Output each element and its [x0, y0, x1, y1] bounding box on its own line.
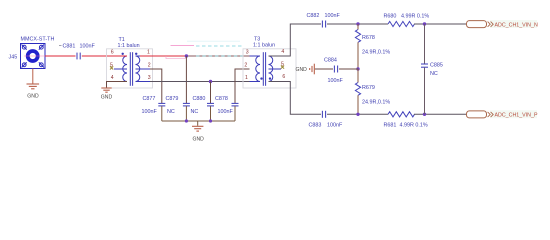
svg-text:GND: GND — [296, 67, 308, 73]
capacitor C878 — [232, 103, 239, 106]
port ADC_CH1_VIN_N — [490, 20, 537, 28]
capacitor C877 — [158, 103, 165, 106]
ground under J45 — [27, 84, 40, 89]
svg-text:NC: NC — [167, 109, 175, 115]
T1 pin 2 — [136, 68, 151, 70]
T3 pin 1 line — [250, 81, 261, 83]
wire bus to GND — [197, 121, 199, 126]
svg-text:6: 6 — [282, 74, 285, 80]
T3 phase dots — [260, 77, 262, 79]
svg-text:NC: NC — [191, 109, 199, 115]
T1 core — [129, 52, 131, 86]
capacitor C881 — [77, 53, 80, 60]
junction on row3 at C880 — [209, 80, 212, 83]
wire T1 pin2 to C877 — [150, 69, 162, 103]
resistor R678 (vertical) — [357, 24, 359, 30]
capacitor C882 — [322, 21, 325, 28]
cap bottom stubs — [162, 106, 235, 121]
wire J45 to C881 (red RF net) — [45, 55, 76, 57]
svg-text:4: 4 — [281, 49, 284, 55]
wire T1 pin3 to T3 pin1 — [150, 81, 250, 83]
wire T3 pin4 up to top row — [269, 24, 322, 56]
wire C882 to junction to R680 — [327, 23, 388, 25]
svg-text:C884: C884 — [324, 57, 337, 63]
T1 right winding — [136, 56, 140, 82]
wire T3 pin6 down to bottom row — [269, 82, 322, 115]
svg-text:MMCX-ST-TH: MMCX-ST-TH — [21, 37, 55, 43]
T1 pin numbers — [110, 50, 151, 82]
svg-text:GND: GND — [27, 94, 39, 100]
svg-text:C881: C881 — [63, 43, 76, 49]
svg-text:C880: C880 — [193, 96, 206, 102]
capacitor C884 — [334, 66, 337, 73]
svg-text:C882: C882 — [307, 13, 320, 19]
T1 pin 1 line — [136, 55, 141, 57]
svg-text:4.99R 0.1%: 4.99R 0.1% — [401, 13, 429, 19]
svg-text:C879: C879 — [166, 96, 179, 102]
mid junction — [356, 67, 359, 70]
junction bottom at R679 column — [356, 113, 359, 116]
ground left-pointing at C884 — [310, 64, 315, 75]
wire C885 column upper — [424, 24, 426, 64]
capacitor C885 — [421, 64, 428, 67]
svg-text:4: 4 — [111, 75, 114, 81]
svg-text:3: 3 — [246, 50, 249, 56]
svg-text:24.9R,0.1%: 24.9R,0.1% — [362, 49, 390, 55]
svg-text:J45: J45 — [9, 54, 18, 60]
wire C883 to junction to R681 — [327, 113, 388, 115]
no-ERC marker on T1 pin 5 — [110, 66, 113, 69]
selection artifact lines — [171, 44, 195, 46]
T3 left winding — [256, 56, 260, 82]
junction node A — [185, 54, 188, 57]
resistor R680 — [388, 21, 414, 26]
capacitor C883 — [322, 111, 325, 118]
svg-text:100nF: 100nF — [142, 109, 158, 115]
T3 pin numbers — [244, 49, 285, 81]
svg-text:1: 1 — [147, 50, 150, 56]
T1 pin 3 — [136, 81, 151, 83]
port ADC_CH1_VIN_P — [490, 110, 537, 118]
T1 pin 5 — [114, 68, 127, 70]
T1 left winding — [123, 56, 127, 82]
svg-text:C877: C877 — [143, 96, 156, 102]
wire GND to C884 — [315, 68, 333, 70]
wire T1 pin4 to GND — [107, 82, 128, 88]
wire C884 to mid junction — [339, 68, 358, 70]
capacitor C880 — [207, 103, 214, 106]
svg-text:R680: R680 — [384, 13, 397, 19]
svg-text:100nF: 100nF — [328, 78, 344, 84]
svg-text:3: 3 — [148, 75, 151, 81]
resistor R681 — [388, 112, 414, 117]
T1 pin 6 line — [114, 55, 127, 57]
junction bottom at C885 column — [423, 113, 426, 116]
ground bus wire — [162, 120, 235, 122]
T1 phase dots — [122, 53, 124, 55]
wire C885 column lower — [424, 68, 426, 115]
T3 core — [262, 52, 264, 86]
svg-text:2: 2 — [148, 63, 151, 69]
T3 right winding — [269, 56, 273, 82]
svg-text:24.9R,0.1%: 24.9R,0.1% — [362, 99, 390, 105]
T3 pin 5 line — [269, 68, 282, 70]
junction top at R678 column — [356, 22, 359, 25]
resistor R679 (vertical) — [357, 69, 359, 83]
svg-text:R681: R681 — [384, 122, 397, 128]
wire T1 pin1 to junction (red RF net) — [140, 55, 186, 57]
svg-text:1:1 balun: 1:1 balun — [253, 42, 275, 48]
ground under caps — [192, 126, 203, 131]
svg-text:ADC_CH1_VIN_P: ADC_CH1_VIN_P — [495, 113, 538, 119]
svg-text:4.99R 0.1%: 4.99R 0.1% — [400, 122, 428, 128]
svg-text:GND: GND — [101, 94, 113, 100]
svg-text:1:1 balun: 1:1 balun — [118, 43, 140, 49]
svg-text:C885: C885 — [430, 63, 443, 69]
svg-text:R679: R679 — [362, 85, 375, 91]
svg-text:100nF: 100nF — [218, 109, 234, 115]
T3 body box — [243, 49, 296, 88]
svg-text:2: 2 — [244, 63, 247, 69]
wire R680 to junction — [414, 23, 467, 25]
wire R681 to junction to port — [414, 113, 467, 115]
wire T3 pin2 to C878 — [235, 69, 250, 103]
svg-text:R678: R678 — [362, 35, 375, 41]
junction top at C885 column — [423, 22, 426, 25]
svg-text:NC: NC — [430, 71, 438, 77]
wire C881 to T1 pin6 (red RF net) — [82, 55, 127, 57]
svg-text:ADC_CH1_VIN_N: ADC_CH1_VIN_N — [495, 22, 538, 28]
wire junction to T3 pin3 — [186, 55, 260, 57]
T3 pin 3 line — [250, 55, 261, 57]
wire J45 to GND — [32, 69, 34, 84]
svg-text:100nF: 100nF — [80, 43, 96, 49]
bus junctions — [185, 119, 188, 122]
svg-text:100nF: 100nF — [325, 13, 341, 19]
wire C880 column — [210, 82, 212, 104]
connector J45 — [21, 44, 46, 69]
svg-text:C883: C883 — [309, 122, 322, 128]
ground under T1 pin4 — [101, 88, 111, 92]
T1 body box — [107, 49, 153, 88]
capacitor C879 — [183, 103, 190, 106]
svg-text:100nF: 100nF — [327, 122, 343, 128]
wire junction down to C879 — [185, 56, 187, 103]
no-ERC marker on T3 pin 5 — [281, 66, 284, 69]
svg-text:6: 6 — [111, 50, 114, 56]
svg-text:C878: C878 — [215, 96, 228, 102]
svg-text:GND: GND — [193, 136, 205, 142]
svg-text:1: 1 — [245, 75, 248, 81]
